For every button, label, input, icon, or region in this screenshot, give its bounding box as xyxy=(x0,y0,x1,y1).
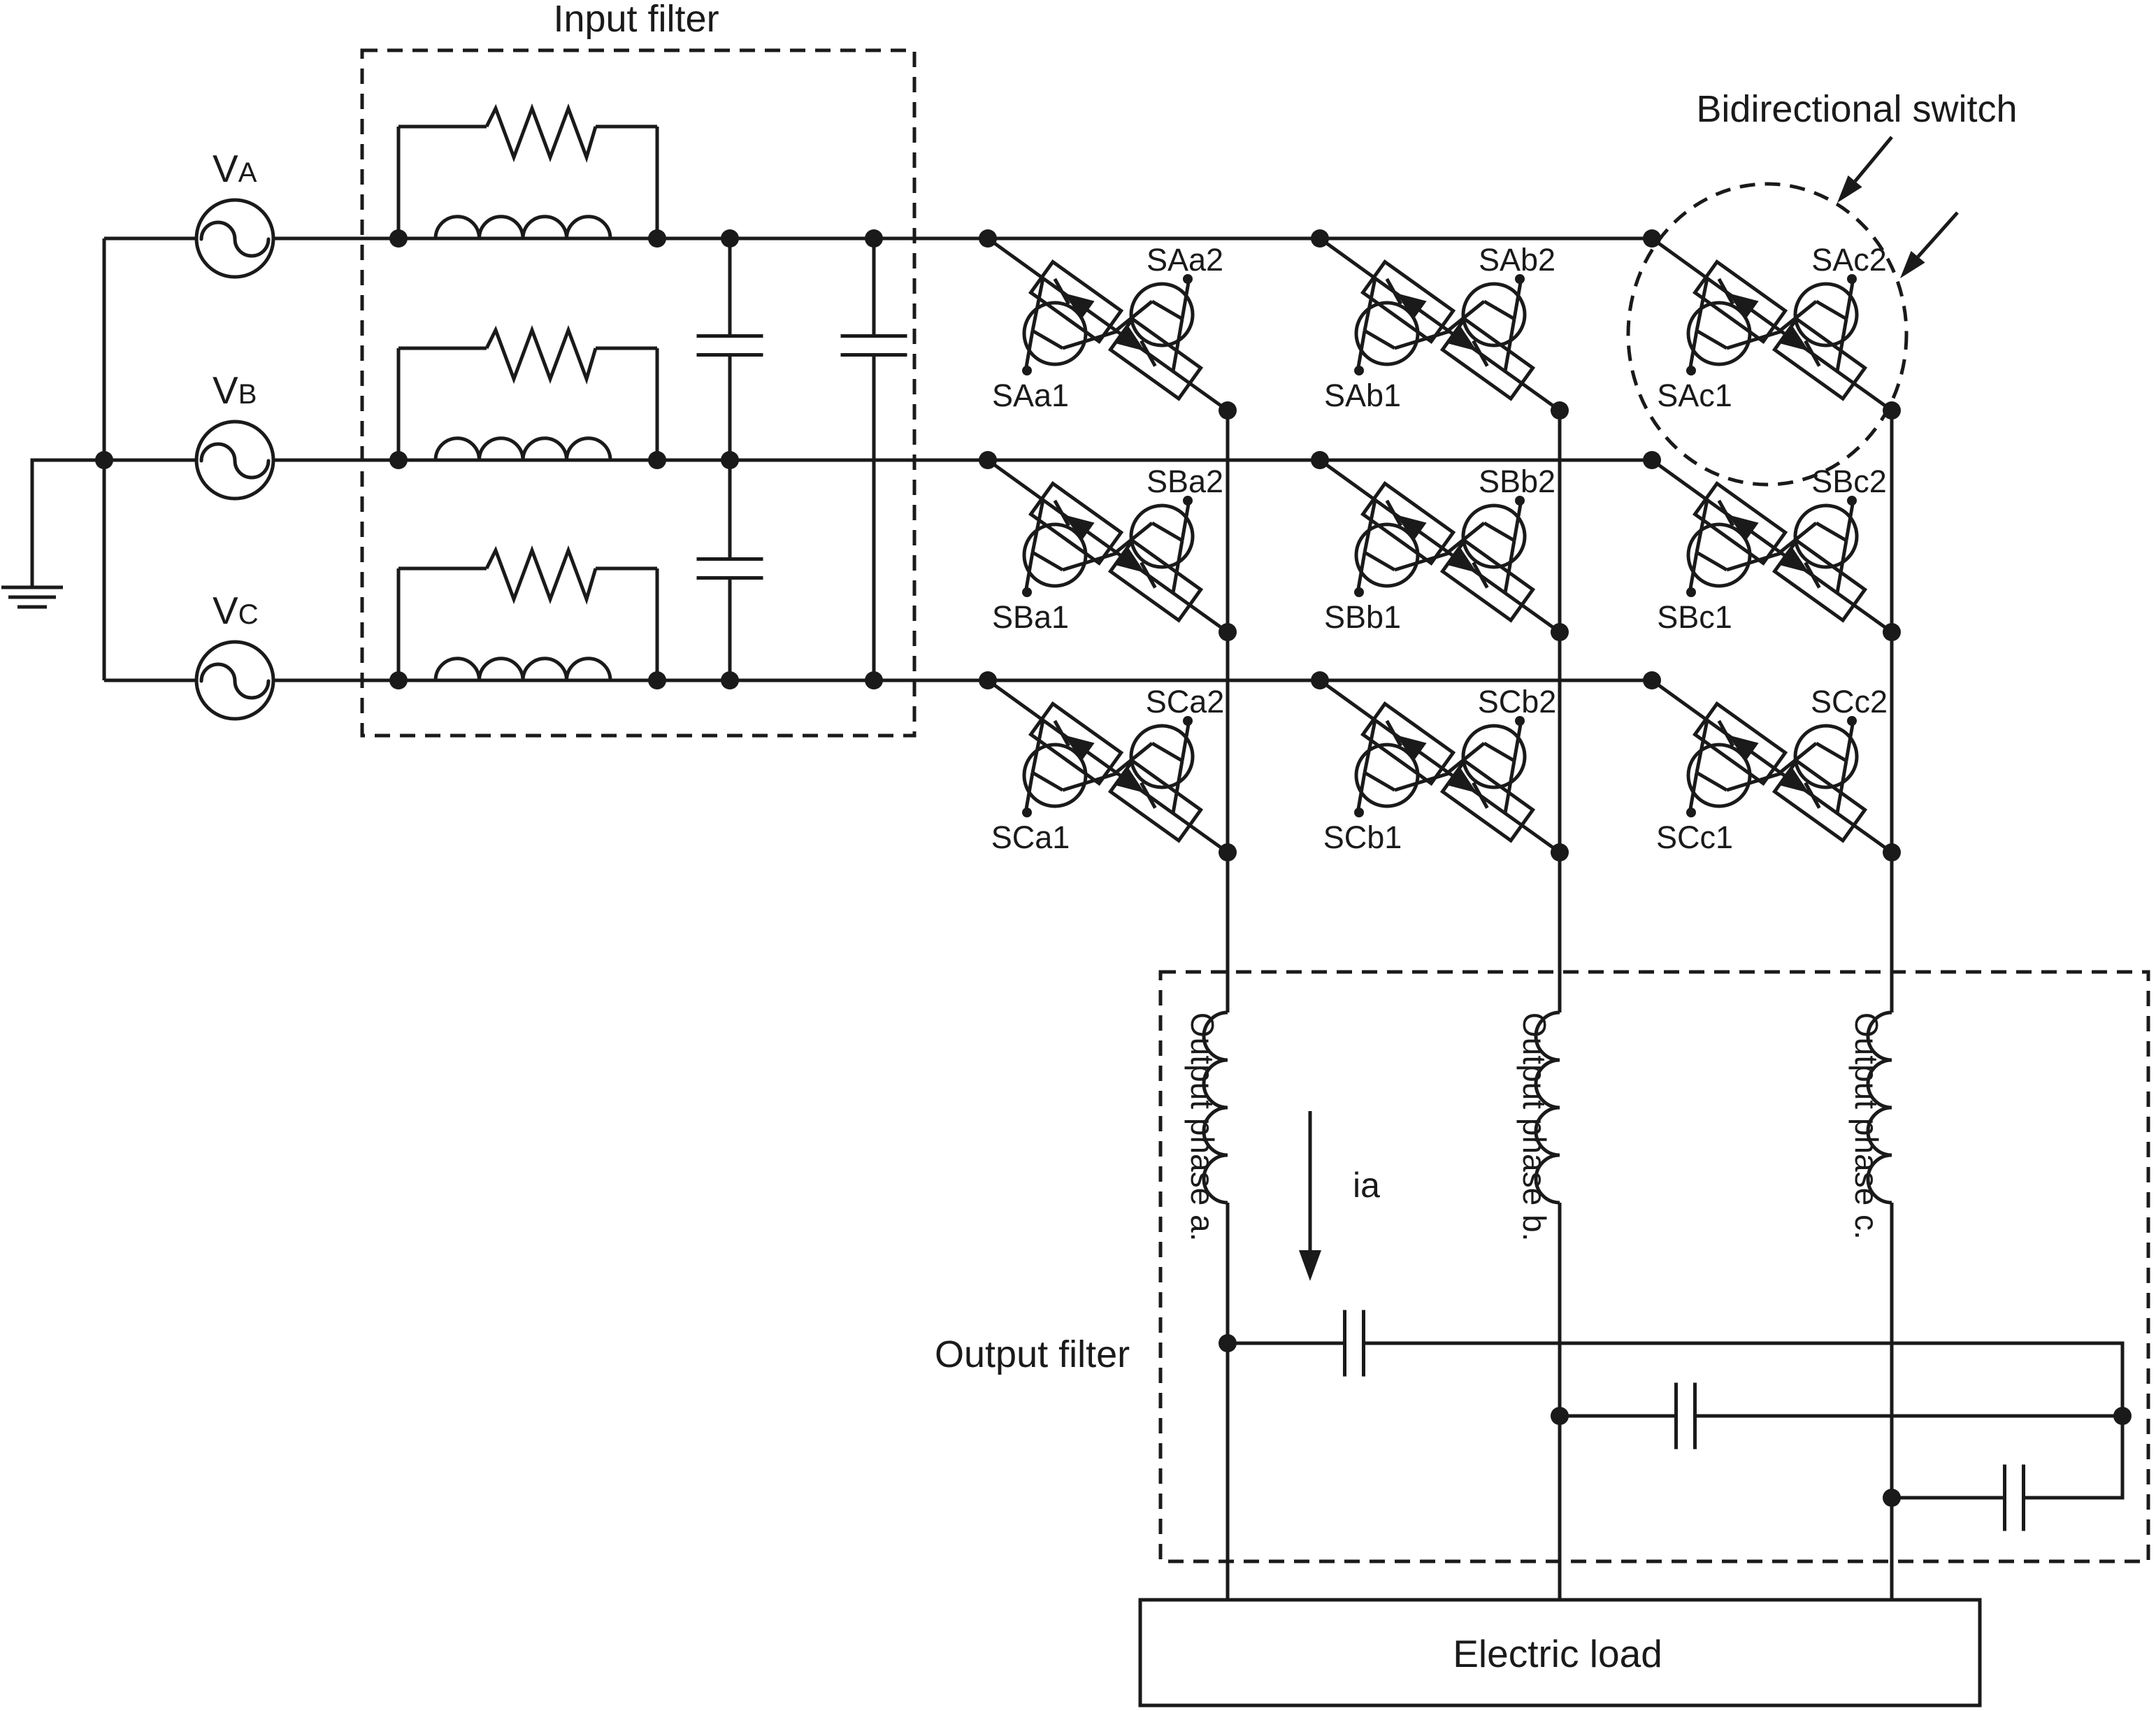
svg-text:Electric load: Electric load xyxy=(1453,1632,1662,1675)
svg-text:Output phase b.: Output phase b. xyxy=(1516,1012,1553,1241)
svg-text:Bidirectional switch: Bidirectional switch xyxy=(1696,88,2017,130)
wire output phase c column lower xyxy=(1890,1203,1894,1600)
AC source VB xyxy=(196,422,273,499)
wire phase A bus xyxy=(273,237,1652,241)
node SAc input xyxy=(1643,229,1661,248)
callout arrow 2 xyxy=(1900,213,1957,278)
bidirectional switch SBa (transistors SBa1/SBa2 with series diodes) xyxy=(988,460,1228,635)
bidirectional switch SCb (transistors SCb1/SCb2 with series diodes) xyxy=(1320,680,1560,855)
svg-text:SBa1: SBa1 xyxy=(992,599,1069,635)
node SCb output xyxy=(1551,843,1569,861)
node col1-A xyxy=(721,229,739,248)
bidirectional switch SCc (transistors SCc1/SCc2 with series diodes) xyxy=(1652,680,1892,855)
capacitor C1 (A-B) xyxy=(697,336,763,355)
node SCa input xyxy=(979,671,997,689)
wire output phase b column upper xyxy=(1558,410,1562,1012)
node SBc input xyxy=(1643,451,1661,469)
node col2-A xyxy=(865,229,883,248)
svg-text:SCa1: SCa1 xyxy=(991,819,1070,855)
svg-text:SAb1: SAb1 xyxy=(1324,378,1401,413)
svg-text:Output filter: Output filter xyxy=(935,1333,1130,1375)
svg-text:SBa2: SBa2 xyxy=(1147,464,1223,499)
node SBb input xyxy=(1311,451,1329,469)
bidirectional switch SBb (transistors SBb1/SBb2 with series diodes) xyxy=(1320,460,1560,635)
wire cap column1 segment C xyxy=(728,578,732,681)
capacitor C5 (phase b) xyxy=(1676,1383,1695,1449)
current arrow ia xyxy=(1299,1111,1321,1281)
AC source VC xyxy=(196,642,273,719)
wire output cap line a right xyxy=(1364,1343,2123,1416)
wire output phase a column upper xyxy=(1226,410,1230,1012)
wire phase A left stub xyxy=(104,237,196,241)
node SBa output xyxy=(1219,623,1237,641)
node SAa input xyxy=(979,229,997,248)
svg-text:SCb1: SCb1 xyxy=(1323,819,1402,855)
RL input filter branch phase B (R parallel L) xyxy=(389,330,666,469)
wire output cap line b right xyxy=(1695,1415,2123,1418)
bidirectional switch callout dashed circle xyxy=(1628,184,1906,485)
svg-text:SAa2: SAa2 xyxy=(1147,242,1223,278)
wire cap column1 segment B xyxy=(728,355,732,559)
wire cap column2 segment to C xyxy=(872,355,876,681)
node cap star b xyxy=(1551,1407,1569,1425)
node col2-C xyxy=(865,671,883,689)
wire ground tap xyxy=(32,460,104,586)
node SCc output xyxy=(1883,843,1901,861)
node col1-B xyxy=(721,451,739,469)
input filter boundary (dashed) xyxy=(362,50,914,736)
AC source VA xyxy=(196,200,273,277)
wire left bus vertical xyxy=(103,238,106,680)
node SAc output xyxy=(1883,401,1901,420)
wire output phase a column lower xyxy=(1226,1203,1230,1600)
node cap star a xyxy=(1219,1334,1237,1352)
bidirectional switch SAc (transistors SAc1/SAc2 with series diodes) xyxy=(1652,238,1892,413)
RL input filter branch phase A (R parallel L) xyxy=(389,108,666,248)
bidirectional switch SAa (transistors SAa1/SAa2 with series diodes) xyxy=(988,238,1228,413)
bidirectional switch SBc (transistors SBc1/SBc2 with series diodes) xyxy=(1652,460,1892,635)
electric load box xyxy=(1140,1600,1980,1705)
callout arrow 1 xyxy=(1837,137,1892,203)
svg-text:SAc2: SAc2 xyxy=(1811,242,1887,278)
svg-text:Output phase a.: Output phase a. xyxy=(1184,1012,1221,1241)
wire cap column1 segment A xyxy=(728,238,732,336)
ground xyxy=(1,587,63,607)
svg-text:ia: ia xyxy=(1353,1166,1380,1205)
node SAa output xyxy=(1219,401,1237,420)
node SBb output xyxy=(1551,623,1569,641)
bidirectional switch SAb (transistors SAb1/SAb2 with series diodes) xyxy=(1320,238,1560,413)
wire output phase b column lower xyxy=(1558,1203,1562,1600)
wire output cap line a xyxy=(1228,1342,1345,1345)
svg-text:Input filter: Input filter xyxy=(553,0,719,40)
capacitor C6 (phase c) xyxy=(2005,1465,2024,1531)
bidirectional switch SCa (transistors SCa1/SCa2 with series diodes) xyxy=(988,680,1228,855)
wire output phase c column upper xyxy=(1890,410,1894,1012)
svg-text:SBc2: SBc2 xyxy=(1811,464,1887,499)
capacitor C2 (B-C) xyxy=(697,559,763,578)
capacitor C3 (A-C) xyxy=(841,336,907,355)
svg-text:SCb2: SCb2 xyxy=(1478,684,1557,720)
node SCa output xyxy=(1219,843,1237,861)
wire phase B bus xyxy=(273,459,1652,462)
node SAb input xyxy=(1311,229,1329,248)
RL input filter branch phase C (R parallel L) xyxy=(389,550,666,689)
node SCc input xyxy=(1643,671,1661,689)
svg-text:SBc1: SBc1 xyxy=(1657,599,1732,635)
inductor output phase c xyxy=(1868,1012,1892,1203)
node cap star c xyxy=(1883,1489,1901,1507)
inductor output phase b xyxy=(1536,1012,1560,1203)
node SCb input xyxy=(1311,671,1329,689)
wire phase C bus xyxy=(273,679,1652,682)
wire cap column2 segment A xyxy=(872,238,876,336)
wire output cap line b xyxy=(1560,1415,1676,1418)
node SAb output xyxy=(1551,401,1569,420)
inductor output phase a xyxy=(1204,1012,1228,1203)
wire output cap line c right xyxy=(2024,1416,2123,1498)
svg-text:Output phase c.: Output phase c. xyxy=(1848,1012,1885,1240)
capacitor C4 (phase a) xyxy=(1345,1310,1364,1377)
svg-text:SCa2: SCa2 xyxy=(1146,684,1225,720)
node SBc output xyxy=(1883,623,1901,641)
output filter boundary (dashed) xyxy=(1160,972,2148,1561)
svg-text:SAb2: SAb2 xyxy=(1479,242,1555,278)
node cap star common xyxy=(2113,1407,2132,1425)
wire output cap line c xyxy=(1892,1496,2005,1500)
svg-text:SCc1: SCc1 xyxy=(1656,819,1733,855)
wire phase C left stub xyxy=(104,679,196,682)
svg-text:SCc2: SCc2 xyxy=(1811,684,1888,720)
node bus-ground junction xyxy=(95,451,113,469)
wire phase B left stub xyxy=(104,459,196,462)
node SBa input xyxy=(979,451,997,469)
svg-text:SAc1: SAc1 xyxy=(1657,378,1732,413)
svg-text:SBb2: SBb2 xyxy=(1479,464,1555,499)
svg-text:SBb1: SBb1 xyxy=(1324,599,1401,635)
svg-text:SAa1: SAa1 xyxy=(992,378,1069,413)
node col1-C xyxy=(721,671,739,689)
